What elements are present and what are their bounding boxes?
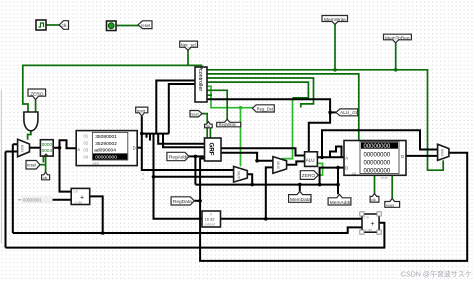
constant 00000001 (22, 196, 53, 203)
wire width-adapter stair (330, 147, 342, 158)
svg-text:clk: clk (206, 124, 210, 128)
svg-text:addr: addr (93, 162, 101, 166)
wire RAM data-in riser (320, 168, 344, 185)
wire PC mux input 1 riser (6, 152, 18, 248)
node PC output junction (58, 146, 62, 150)
wire PC output branch to adder (60, 148, 72, 192)
wire PC output to ROM address (53, 140, 76, 148)
alu U2 (305, 152, 318, 167)
svg-text:RegWrite: RegWrite (219, 122, 237, 127)
svg-text:ad090004: ad090004 (94, 148, 116, 154)
register file GRF (205, 138, 222, 161)
wire ALU-src mux select drop (value 1) (282, 98, 293, 159)
tunnel MemToReg (384, 34, 412, 43)
svg-text:00000000: 00000000 (364, 168, 391, 174)
svg-text:reset: reset (27, 163, 37, 168)
svg-text:reset: reset (141, 23, 151, 28)
mux PC-source MUX (18, 139, 30, 157)
wire writeback return rail (200, 153, 467, 261)
node instruction bus junction (140, 132, 144, 136)
svg-text:01: 01 (84, 134, 89, 139)
wire rt field to write-reg mux (154, 176, 234, 178)
svg-text:Instr: Instr (137, 109, 146, 114)
wire RegAddr to GRF A3 (189, 155, 205, 157)
svg-text:35290002: 35290002 (95, 141, 117, 147)
wire MemToReg tunnel drop (395, 42, 397, 70)
svg-text:Npc_sel: Npc_sel (181, 43, 196, 48)
wire MemWrite tunnel drop (334, 24, 336, 70)
node MemWrite junction (333, 68, 337, 72)
wire write-reg mux output (247, 174, 252, 184)
button reset (107, 21, 117, 31)
wire RegData tunnel stub (194, 200, 200, 202)
svg-text:clk: clk (43, 176, 47, 180)
wire rs field to GRF A1 (158, 134, 204, 144)
tunnel ZERO (left) (28, 89, 46, 100)
svg-text:ALU: ALU (306, 158, 315, 163)
tunnel MemData (289, 191, 312, 203)
wire Npc_sel net (tunnel to controller top and left rail to AND gate) (23, 50, 202, 112)
wire controller pin3 stub (207, 78, 314, 108)
extender sign-extend (202, 211, 221, 227)
tunnel RegWrite (217, 119, 241, 127)
tunnel clk (RAM) (370, 194, 379, 203)
tunnel Reg_Dst (252, 105, 274, 112)
svg-text:A: A (345, 155, 348, 160)
wire adder1 output to next-pc rail (90, 196, 103, 233)
wire ALU result riser to writeback (322, 130, 438, 157)
wire ALU output to RAM address (317, 156, 344, 158)
wire MemData tap (299, 185, 301, 192)
node ALU_ctr junction (328, 111, 332, 115)
wire RAM clk pin (374, 175, 376, 193)
wire branch adder output return rail (6, 223, 385, 248)
ROM instruction memory (76, 131, 137, 166)
wire ZERO tunnel to AND gate (35, 100, 37, 113)
svg-text:0000: 0000 (42, 142, 53, 147)
svg-text:reset: reset (191, 112, 199, 116)
svg-text:ld clr: ld clr (381, 176, 389, 180)
tunnel clk (top) (59, 21, 68, 30)
tunnel MemAddr (328, 194, 351, 206)
node ALU result junction (320, 155, 324, 159)
wire ALU_ctr tunnel stub (330, 111, 336, 113)
tunnel ZERO (ALU) (300, 171, 318, 180)
wire RAM data out to writeback mux (406, 155, 438, 157)
svg-text:00000000: 00000000 (364, 161, 391, 167)
wire GRF RD1 to ALU A (221, 148, 305, 155)
wire extender branch to ALU-src mux (266, 167, 273, 218)
svg-text:MemData: MemData (290, 197, 311, 203)
tunnel clk (GRF) (205, 122, 213, 129)
svg-text:35080001: 35080001 (95, 134, 117, 140)
wire controller ALU_ctr bundle (207, 99, 330, 152)
svg-text:MemWrite: MemWrite (324, 17, 346, 23)
svg-text:c in: c in (73, 190, 78, 194)
tunnel Npc_sel (180, 41, 198, 50)
wire next-pc rail to branch adder (13, 227, 362, 233)
wire rt field to GRF A2 (163, 134, 205, 148)
svg-text:MUX: MUX (440, 149, 444, 157)
mux write-reg MUX (234, 166, 248, 182)
wire AND output to PC mux select (28, 131, 31, 140)
node MemToReg junction (394, 68, 398, 72)
mux writeback MUX (438, 144, 449, 160)
wire controller pin2 to RAM write enable (207, 74, 359, 141)
wire splitter stub B (149, 134, 151, 141)
wire controller pin5 Reg_Dst net (207, 86, 252, 108)
svg-text:c out: c out (75, 200, 82, 204)
svg-text:00000000: 00000000 (364, 144, 391, 150)
svg-text:D: D (133, 146, 136, 151)
wire clock to clk tunnel (46, 24, 60, 26)
svg-text:MemToReg: MemToReg (385, 36, 410, 42)
svg-text:sel: sel (352, 171, 356, 175)
node Reg_Dst junction (239, 106, 243, 110)
wire Instr tunnel to instruction bus (142, 116, 234, 170)
node RegData junction (198, 199, 202, 203)
wire controller pin4 to ALU-src mux select (207, 82, 308, 98)
wire Reg_Dst to write-reg mux select (240, 108, 242, 167)
svg-text:c out: c out (365, 228, 372, 232)
wire write-address rail to MemAddr (195, 168, 338, 195)
node write rail junction 1 (250, 183, 254, 187)
tunnel reset (PC) (26, 161, 40, 170)
wire funct to controller (169, 84, 195, 134)
wire extender output to branch adder (221, 218, 363, 220)
svg-text:02: 02 (84, 141, 89, 146)
wire reset tunnel to GRF (202, 114, 207, 138)
wire button to reset tunnel (116, 25, 139, 27)
svg-text:MUX: MUX (20, 145, 24, 153)
node rt field junction (152, 175, 156, 179)
tunnel reset (top) (138, 21, 152, 29)
tunnel clk (PC) (42, 172, 50, 180)
left edge artifact (1, 90, 2, 243)
wire ALU-src mux output to ALU B (287, 161, 305, 164)
wire opcode to controller (156, 81, 195, 134)
tunnel MemWrite (322, 16, 348, 25)
svg-text:D: D (345, 166, 348, 171)
svg-text:extend: extend (205, 223, 216, 227)
node RD2 corner junction (255, 159, 259, 163)
svg-text:ZERO: ZERO (30, 92, 44, 98)
wire ROM data out (137, 147, 142, 149)
svg-text:MemAddr: MemAddr (330, 200, 351, 206)
svg-text:04: 04 (84, 154, 89, 159)
wire GRF RD2 to ALU-src mux (221, 153, 273, 161)
svg-text:RegAddr: RegAddr (169, 154, 188, 160)
adder PC+1 (71, 188, 90, 204)
node MemAddr din junction (336, 166, 340, 170)
tunnel RegData (171, 197, 194, 205)
wire controller pin7 stub (207, 94, 212, 96)
wire reset tunnel to PC register (40, 156, 46, 172)
svg-text:reset: reset (386, 203, 394, 207)
svg-text:ZERO: ZERO (302, 173, 316, 179)
svg-text:ALU_ctr: ALU_ctr (340, 110, 358, 116)
tunnel Instr (136, 107, 148, 116)
svg-text:clk: clk (62, 23, 68, 28)
svg-text:16 32: 16 32 (205, 217, 216, 222)
svg-text:Reg_Dst: Reg_Dst (257, 106, 274, 111)
svg-text:RegData: RegData (173, 199, 192, 205)
node RAM data-in junction (318, 183, 322, 187)
svg-text:00000000: 00000000 (95, 155, 117, 161)
wire constant to adder input (52, 199, 71, 201)
node MemAddr rail junction (336, 183, 340, 187)
tunnel reset (GRF) (190, 111, 202, 117)
wire instruction bus to splitter (142, 133, 169, 135)
svg-text:clk: clk (371, 198, 376, 202)
svg-text:GRF: GRF (208, 143, 215, 156)
svg-text:MUX: MUX (276, 161, 280, 169)
wire clk tunnel to GRF (209, 127, 211, 138)
svg-text:CSDN @午習波サスケ: CSDN @午習波サスケ (401, 269, 472, 278)
wire controller pin1 MemWrite/MemToReg rail to writeback mux select (207, 70, 443, 170)
clock source (36, 20, 46, 30)
svg-text:MUX: MUX (237, 171, 241, 179)
tunnel RegAddr (167, 152, 189, 160)
svg-text:c in: c in (364, 216, 369, 220)
wire ALU zero flag to ZERO tunnel (317, 163, 322, 175)
node RegAddr junction (194, 155, 198, 159)
RAM data memory (344, 141, 406, 180)
gate AND1 (24, 112, 38, 131)
svg-text:0004: 0004 (42, 148, 53, 153)
mux ALU-src MUX (273, 157, 287, 174)
node next-pc rail junction (101, 231, 105, 235)
adder branch (selected) (360, 212, 381, 234)
wire immediate field to extender (154, 134, 203, 219)
controller U1 (195, 67, 207, 102)
wire PC mux output to PC (30, 147, 41, 149)
svg-text:00000000: 00000000 (364, 153, 391, 159)
wire write-address drop (194, 156, 196, 184)
wire controller pin6 to RegWrite tunnel (207, 90, 227, 119)
wire splitter stub A (146, 134, 148, 138)
node MemData junction (298, 183, 302, 187)
tunnel reset (RAM) (385, 199, 400, 208)
wire PC mux input 0 riser (13, 144, 18, 233)
svg-text:00000001: 00000001 (23, 198, 42, 203)
svg-text:D: D (401, 154, 404, 159)
wire RAM reset pin (391, 175, 393, 198)
svg-text:A: A (77, 147, 80, 152)
svg-text:03: 03 (84, 148, 89, 153)
tunnel ALU_ctr (336, 109, 358, 116)
register PC (40, 140, 53, 156)
node extender branch junction (264, 217, 268, 221)
svg-text:controller: controller (197, 69, 203, 91)
